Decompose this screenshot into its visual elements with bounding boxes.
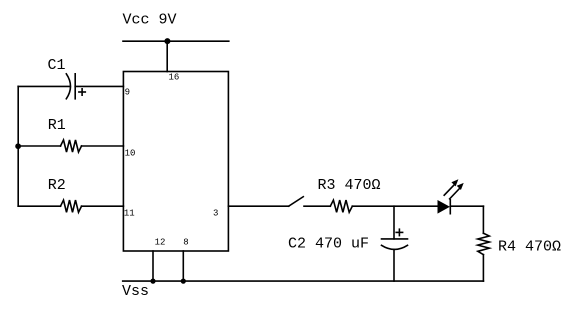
wire pin 3 to switch	[228, 205, 288, 207]
resistor R3	[330, 200, 352, 212]
wire R3 to LED	[352, 205, 437, 207]
capacitor C2 plates	[382, 238, 408, 240]
LED D1 light arrow 1 head	[451, 179, 458, 186]
svg-text:10: 10	[125, 149, 136, 159]
svg-text:R4 470Ω: R4 470Ω	[498, 239, 561, 256]
svg-text:8: 8	[183, 238, 188, 248]
wire C2 bottom	[393, 249, 395, 281]
C1 polarity mark +	[79, 91, 85, 93]
LED D1 light arrow 1 shaft	[444, 185, 454, 195]
wire R2 right to pin 11	[82, 205, 124, 207]
svg-text:16: 16	[169, 73, 180, 83]
node pin 12 ground junction	[150, 279, 155, 284]
wire R2 left	[18, 205, 60, 207]
wire R4 top	[482, 206, 484, 233]
svg-text:11: 11	[124, 209, 135, 219]
wire R4 bottom	[482, 255, 484, 282]
wire Vcc rail	[123, 40, 229, 42]
svg-text:R2: R2	[48, 177, 66, 194]
svg-text:C2 470 uF: C2 470 uF	[288, 236, 369, 253]
LED D1 light arrow 2 shaft	[450, 189, 460, 199]
node R1 junction	[15, 143, 21, 149]
svg-text:12: 12	[155, 238, 166, 248]
svg-text:R3 470Ω: R3 470Ω	[318, 177, 381, 194]
node pin 8 ground junction	[181, 279, 186, 284]
wire pin 8 down	[182, 251, 184, 281]
C2 polarity mark +	[396, 231, 402, 233]
wire LED cathode to corner	[450, 205, 483, 207]
svg-text:C1: C1	[48, 57, 66, 74]
LED D1 cathode bar	[449, 199, 451, 215]
IC U1 16-pin body	[123, 72, 228, 252]
switch S1 blade	[289, 197, 304, 207]
wire R1 left	[18, 145, 60, 147]
LED D1 triangle	[438, 200, 450, 214]
wire switch to R3	[304, 205, 330, 207]
LED D1 light arrow 2 head	[457, 183, 464, 190]
wire bottom rail	[123, 280, 484, 282]
wire C1 right to pin 9	[75, 85, 123, 87]
resistor R2	[61, 200, 82, 212]
wire Vcc drop to pin 16	[166, 41, 168, 71]
svg-text:3: 3	[213, 209, 218, 219]
capacitor C1 plates	[66, 74, 70, 99]
svg-text:R1: R1	[48, 117, 66, 134]
wire left rail	[17, 86, 19, 206]
svg-text:9: 9	[125, 88, 130, 98]
wire C2 top	[393, 206, 395, 239]
svg-text:Vss: Vss	[122, 283, 149, 300]
wire C1 left	[18, 85, 70, 87]
resistor R4	[478, 233, 490, 254]
node Vcc junction	[164, 38, 170, 44]
wire R1 right to pin 10	[82, 145, 124, 147]
wire pin 12 down	[152, 251, 154, 281]
svg-text:Vcc 9V: Vcc 9V	[123, 12, 177, 29]
resistor R1	[61, 140, 82, 152]
